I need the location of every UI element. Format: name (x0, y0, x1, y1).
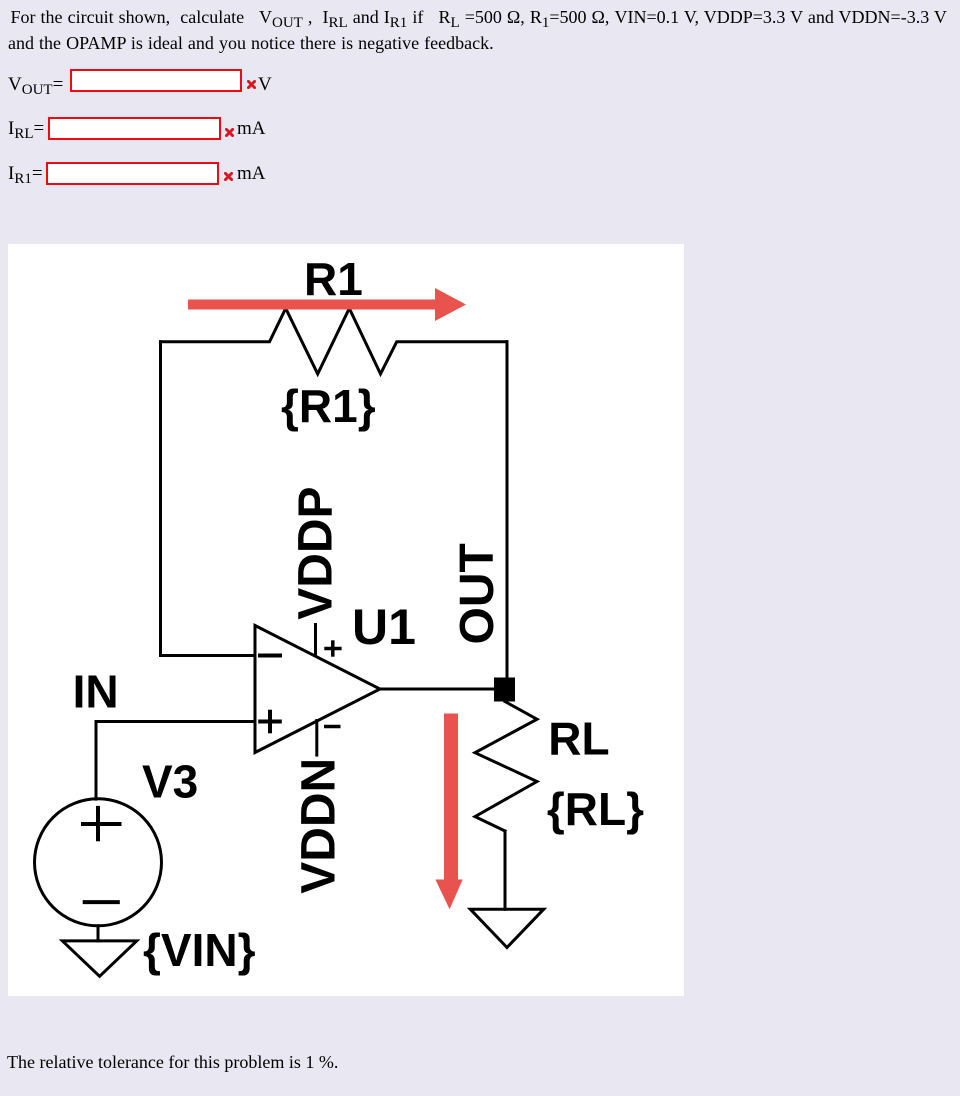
svg-text:VDDP: VDDP (290, 486, 343, 619)
svg-text:{VIN}: {VIN} (143, 924, 256, 976)
svg-text:IN: IN (73, 665, 119, 717)
svg-text:V3: V3 (142, 755, 198, 807)
svg-text:{RL}: {RL} (547, 782, 644, 834)
svg-text:VDDN: VDDN (293, 757, 346, 893)
svg-text:RL: RL (548, 712, 609, 764)
svg-text:OUT: OUT (451, 543, 504, 644)
svg-text:U1: U1 (352, 598, 416, 654)
svg-text:{R1}: {R1} (281, 380, 376, 432)
svg-text:R1: R1 (304, 252, 363, 304)
